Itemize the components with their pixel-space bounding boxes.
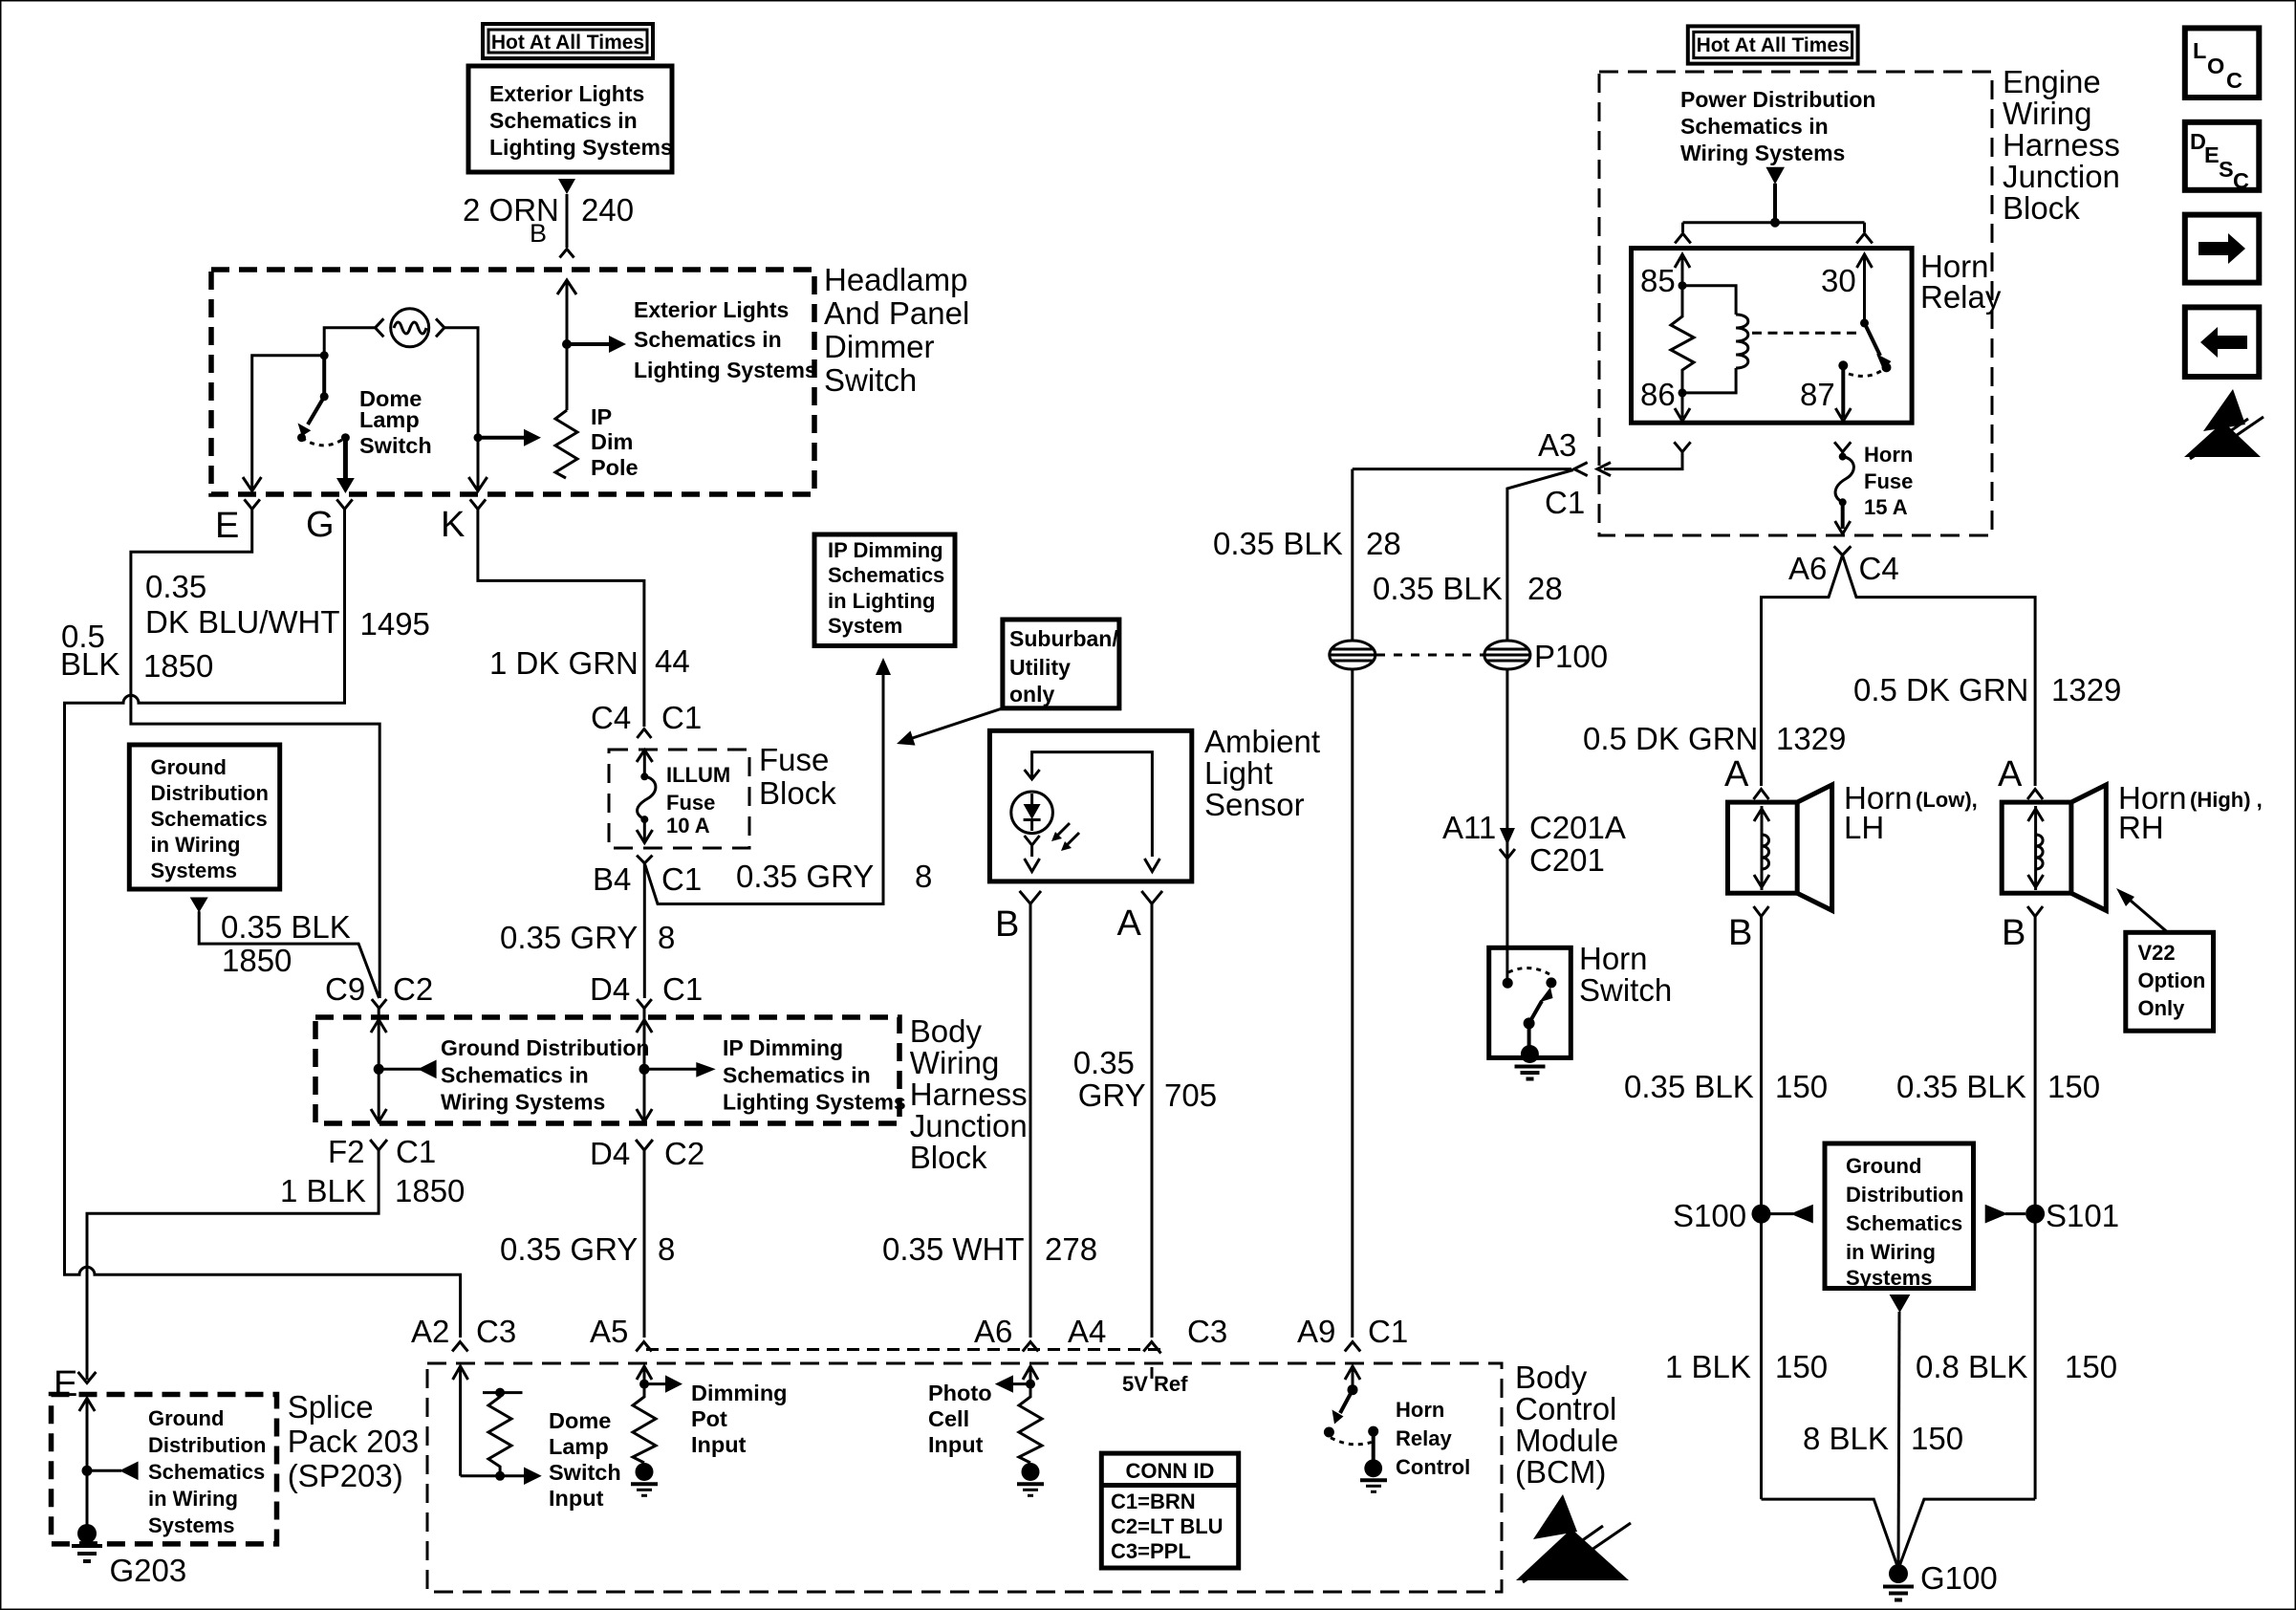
svg-text:(SP203): (SP203) — [288, 1458, 403, 1493]
arrow to ground distribution text — [379, 1060, 436, 1079]
svg-text:E: E — [215, 506, 239, 546]
svg-text:Block: Block — [2003, 190, 2080, 226]
svg-text:Block: Block — [910, 1140, 987, 1175]
svg-text:C2: C2 — [393, 971, 433, 1007]
connector box: Hot At All Times (right) — [1688, 26, 1858, 63]
svg-text:44: 44 — [655, 643, 690, 679]
annotation: IP Dimming Schematics in Lighting Systems — [723, 1035, 906, 1115]
svg-text:C3=PPL: C3=PPL — [1111, 1539, 1191, 1563]
BCM A4 entry wire — [1151, 1367, 1154, 1379]
horn RH internals — [2028, 806, 2044, 890]
connector chevron B4 — [637, 856, 652, 863]
annotation: Photo Cell Input — [928, 1381, 992, 1457]
label Horn Fuse 15 A — [1864, 443, 1913, 519]
svg-text:Junction: Junction — [910, 1108, 1028, 1143]
svg-text:Dimming: Dimming — [691, 1381, 788, 1405]
wire LH horn ground run — [1762, 1499, 1899, 1569]
horn RH coil box — [2002, 802, 2071, 893]
relay output contact 87 — [1838, 360, 1881, 376]
arrow to photo cell text — [995, 1375, 1030, 1392]
svg-text:Light: Light — [1204, 755, 1273, 791]
svg-text:LH: LH — [1844, 810, 1884, 845]
pin 30 entry arrow and switch pivot — [1857, 254, 1873, 327]
svg-text:240: 240 — [581, 192, 634, 228]
svg-text:Splice: Splice — [288, 1389, 374, 1425]
svg-text:Fuse: Fuse — [1864, 469, 1913, 493]
svg-text:0.35: 0.35 — [145, 569, 206, 604]
svg-text:Suburban/: Suburban/ — [1009, 626, 1118, 651]
svg-text:0.35 BLK: 0.35 BLK — [1213, 526, 1343, 561]
sensor internal wiring — [1032, 752, 1160, 872]
svg-text:Block: Block — [759, 775, 836, 811]
horn fuse element — [1835, 452, 1853, 507]
svg-text:C201A: C201A — [1529, 810, 1626, 845]
arrow to IP dim pole resistor — [478, 429, 541, 446]
connector chevron F2/C1 — [370, 1140, 387, 1150]
svg-text:(Low),: (Low), — [1916, 788, 1978, 812]
connector A6/C4 chevron — [1834, 546, 1852, 555]
connector A11 arrow and chevron — [1500, 828, 1515, 859]
annotation: Exterior Lights Schematics in Lighting Systems — [634, 297, 817, 382]
svg-text:150: 150 — [2047, 1069, 2100, 1104]
annotation: Dome Lamp Switch — [359, 386, 432, 458]
svg-text:B: B — [2002, 913, 2025, 953]
svg-text:0.35 GRY: 0.35 GRY — [500, 1231, 638, 1267]
svg-text:0.35: 0.35 — [1073, 1045, 1135, 1080]
svg-text:C: C — [2233, 168, 2249, 193]
svg-text:C1: C1 — [1368, 1314, 1408, 1349]
ambient light sensor box — [989, 730, 1191, 881]
svg-text:GRY: GRY — [1078, 1077, 1146, 1113]
node: S101 — [2025, 1205, 2045, 1224]
svg-text:DK BLU/WHT: DK BLU/WHT — [145, 604, 340, 640]
svg-text:A11: A11 — [1442, 810, 1496, 845]
svg-text:A3: A3 — [1538, 427, 1576, 463]
svg-text:0.35 BLK: 0.35 BLK — [221, 909, 351, 945]
svg-text:Sensor: Sensor — [1204, 787, 1305, 822]
svg-text:in Wiring: in Wiring — [148, 1487, 238, 1511]
svg-text:Fuse: Fuse — [666, 791, 715, 815]
arrow from power distribution — [1765, 167, 1785, 185]
resistor: dimming pot input — [633, 1384, 656, 1463]
svg-text:8 BLK: 8 BLK — [1803, 1421, 1889, 1456]
svg-text:Horn: Horn — [1396, 1398, 1444, 1422]
svg-text:in Wiring: in Wiring — [1846, 1240, 1936, 1264]
svg-text:0.5 DK GRN: 0.5 DK GRN — [1853, 672, 2028, 707]
wire lamp left to junction — [324, 328, 375, 356]
arrow from reference box — [558, 179, 575, 194]
svg-text:28: 28 — [1527, 571, 1563, 606]
svg-text:Pot: Pot — [691, 1406, 727, 1431]
svg-text:Systems: Systems — [148, 1513, 235, 1537]
wire pin K with down arrow — [468, 438, 487, 491]
svg-text:G203: G203 — [110, 1553, 187, 1588]
relay switch arm — [1865, 323, 1892, 373]
connector chevron A (horn LH) — [1754, 790, 1769, 800]
svg-text:Schematics in: Schematics in — [441, 1062, 589, 1087]
ground (photo cell) — [1017, 1463, 1044, 1495]
wire BCM drop upper — [1351, 469, 1354, 642]
svg-text:E: E — [54, 1364, 77, 1404]
node: dimming pot top — [639, 1380, 649, 1389]
node: splice junction — [82, 1466, 93, 1476]
arrow from ground distribution box — [190, 898, 208, 913]
svg-text:Cell: Cell — [928, 1406, 969, 1431]
horn LH internals — [1754, 806, 1769, 890]
pin 87 chevron below relay — [1834, 442, 1851, 451]
svg-text:Schematics in: Schematics in — [1680, 114, 1829, 139]
svg-text:1850: 1850 — [143, 648, 213, 684]
arrowhead at A3 — [1597, 463, 1611, 476]
BCM A2 entry arrow — [453, 1366, 468, 1476]
svg-text:C1: C1 — [661, 700, 702, 735]
svg-text:Junction: Junction — [2003, 159, 2120, 194]
svg-text:B: B — [1728, 913, 1752, 953]
component name: Engine Wiring Harness Junction Block — [2003, 64, 2120, 226]
arrow from Suburban box to fuse block — [897, 708, 1003, 746]
incident light arrows — [1051, 823, 1079, 851]
node: photo cell top — [1026, 1380, 1035, 1389]
reference box: V22 Option Only — [2126, 932, 2214, 1031]
svg-text:C1: C1 — [396, 1134, 436, 1169]
annotation: Dimming Pot Input — [691, 1381, 788, 1457]
svg-text:Ambient: Ambient — [1204, 724, 1320, 759]
ground G203 — [72, 1524, 102, 1561]
wire F2 to splice pack pin E — [87, 1150, 379, 1380]
wire 8 BLK 150 to G100 — [1898, 1312, 1899, 1569]
connector chevron A2 — [452, 1342, 467, 1352]
node: coil top — [1679, 281, 1687, 290]
svg-text:Schematics in: Schematics in — [723, 1062, 871, 1087]
svg-text:B: B — [530, 219, 547, 248]
BCM A6 entry arrow — [1023, 1366, 1038, 1384]
connector chevron D4/C1 — [637, 999, 652, 1009]
svg-text:in Lighting: in Lighting — [828, 589, 935, 613]
svg-text:B4: B4 — [593, 861, 631, 897]
component name: Body Control Module (BCM) — [1515, 1360, 1618, 1490]
svg-text:Dome: Dome — [549, 1408, 611, 1433]
svg-text:Hot At All Times: Hot At All Times — [491, 32, 644, 54]
svg-text:(High) ,: (High) , — [2190, 788, 2263, 812]
connector chevron E (splice) — [78, 1372, 97, 1383]
svg-text:RH: RH — [2118, 810, 2164, 845]
svg-text:Lamp: Lamp — [359, 407, 420, 432]
connector chevron D4/C2 — [636, 1140, 653, 1150]
svg-text:1495: 1495 — [360, 606, 430, 642]
svg-text:1 DK GRN: 1 DK GRN — [489, 645, 639, 681]
wire fuse B4 down to D4 — [643, 863, 646, 998]
svg-text:C1: C1 — [662, 971, 703, 1007]
arrow to exterior lights schematics — [567, 336, 626, 353]
svg-text:Wiring: Wiring — [910, 1045, 1000, 1080]
node: bus junction — [1770, 218, 1780, 228]
wire pin G with down arrow — [336, 438, 355, 493]
svg-text:10 A: 10 A — [666, 814, 710, 838]
BCM connector strip dotted line — [646, 1348, 1162, 1351]
svg-text:8: 8 — [658, 1231, 675, 1267]
reference box: Suburban/Utility only — [1003, 620, 1119, 708]
svg-text:86: 86 — [1640, 377, 1676, 412]
coil bottom connection — [1682, 368, 1736, 393]
svg-text:A4: A4 — [1068, 1314, 1106, 1349]
connector chevron C9/C2 — [372, 999, 387, 1009]
switch arm with arrowhead — [298, 397, 325, 437]
connector chevron A3 — [1574, 463, 1588, 476]
svg-text:Schematics: Schematics — [1846, 1211, 1962, 1235]
svg-text:5V Ref: 5V Ref — [1122, 1372, 1188, 1396]
wire branch 0.35 GRY 8 to IP dimming reference — [644, 658, 891, 904]
relay coil resistor — [1671, 286, 1694, 393]
svg-text:C1=BRN: C1=BRN — [1111, 1490, 1196, 1513]
svg-text:E: E — [2204, 142, 2220, 167]
horn RH bell — [2071, 785, 2106, 910]
svg-text:Only: Only — [2138, 996, 2186, 1020]
svg-text:150: 150 — [1911, 1421, 1963, 1456]
svg-text:Fuse: Fuse — [759, 742, 829, 777]
svg-text:S: S — [2219, 157, 2234, 182]
horn LH bell — [1797, 785, 1831, 910]
svg-text:V22: V22 — [2138, 941, 2176, 965]
sidebar LOC box — [2185, 28, 2260, 98]
svg-text:Horn: Horn — [1864, 443, 1913, 467]
svg-text:Lighting Systems: Lighting Systems — [489, 135, 673, 160]
svg-text:Schematics: Schematics — [151, 807, 268, 831]
relay coil — [1736, 315, 1748, 368]
svg-text:Lighting Systems: Lighting Systems — [723, 1090, 906, 1115]
svg-text:A: A — [1117, 903, 1142, 944]
svg-text:IP Dimming: IP Dimming — [723, 1035, 843, 1060]
svg-text:0.35 GRY: 0.35 GRY — [736, 859, 874, 894]
svg-text:IP Dimming: IP Dimming — [828, 538, 943, 562]
horn switch box — [1489, 947, 1571, 1057]
svg-text:L: L — [2193, 38, 2206, 63]
LED photo sensor — [1011, 770, 1053, 872]
horn relay control switch — [1324, 1384, 1378, 1460]
connector chevron B (horn LH) — [1754, 906, 1769, 917]
svg-text:Schematics in: Schematics in — [634, 327, 782, 352]
svg-text:30: 30 — [1821, 263, 1856, 298]
horn switch arm — [1524, 988, 1553, 1030]
svg-text:D4: D4 — [590, 971, 630, 1007]
arrow box to S101 — [1985, 1205, 2025, 1224]
node: junction to exterior lights output — [562, 339, 572, 349]
BCM A5 entry arrow — [637, 1366, 652, 1384]
pin 87 exit arrow — [1835, 365, 1851, 421]
node: coil bottom — [1679, 388, 1687, 397]
svg-text:0.35 BLK: 0.35 BLK — [1624, 1069, 1754, 1104]
label 0.35 GRY (sensor A) — [1073, 1045, 1146, 1113]
wire horn switch drop lower — [1505, 669, 1508, 947]
P100 grommet right — [1484, 641, 1530, 669]
fuse block dashed box — [609, 750, 749, 848]
connector chevron B (sensor) — [1020, 891, 1041, 903]
svg-text:1850: 1850 — [222, 943, 292, 978]
svg-text:Switch: Switch — [359, 433, 432, 458]
svg-text:Wiring Systems: Wiring Systems — [1680, 141, 1845, 165]
label IP Dim Pole — [591, 404, 639, 480]
node: S100 — [1752, 1205, 1771, 1224]
resistor: dome lamp switch input — [483, 1388, 523, 1476]
svg-text:278: 278 — [1045, 1231, 1097, 1267]
svg-text:Systems: Systems — [151, 859, 238, 882]
svg-text:Option: Option — [2138, 968, 2206, 992]
connector chevron C4/C1 — [637, 729, 651, 739]
svg-text:Hot At All Times: Hot At All Times — [1697, 34, 1850, 56]
annotation: Ground Distribution Schematics in Wiring Systems — [441, 1035, 649, 1115]
wire K: 1 DK GRN 44 to fuse block C4 — [478, 510, 644, 728]
svg-text:Ground: Ground — [1846, 1154, 1921, 1178]
svg-text:0.35 BLK: 0.35 BLK — [1373, 571, 1503, 606]
node: K junction — [474, 433, 483, 442]
wire through junction box (IP dim path) — [637, 1009, 652, 1122]
pin 86 exit arrow — [1675, 393, 1690, 422]
engine wiring harness junction block dashed box — [1599, 72, 1992, 535]
svg-text:Exterior Lights: Exterior Lights — [489, 81, 644, 106]
connector chevron B — [560, 250, 574, 258]
sidebar DESC box — [2185, 122, 2260, 193]
svg-text:Distribution: Distribution — [148, 1433, 266, 1457]
connector chevron B (horn RH) — [2027, 906, 2043, 917]
component name: Horn Relay — [1920, 249, 2002, 315]
wire G: DK BLU/WHT 1495 to BCM A2 (with hops) — [65, 510, 461, 1338]
connector chevron E — [245, 499, 260, 509]
ground G100 — [1883, 1564, 1914, 1600]
connector box: Hot At All Times (left) — [483, 24, 653, 58]
svg-text:(BCM): (BCM) — [1515, 1454, 1606, 1490]
svg-text:Relay: Relay — [1396, 1426, 1452, 1450]
svg-text:CONN ID: CONN ID — [1126, 1459, 1215, 1483]
svg-text:A9: A9 — [1297, 1314, 1335, 1349]
wire sensor B to BCM A6: 0.35 WHT 278 — [1029, 903, 1032, 1338]
svg-text:only: only — [1009, 682, 1054, 707]
component name: Fuse Block — [759, 742, 836, 811]
fuse ILLUM element — [638, 772, 656, 823]
connector D4 / C1 labels — [590, 971, 703, 1007]
wire C1 slant to horn switch drop — [1507, 470, 1573, 642]
feed wire to relay bus — [1773, 184, 1777, 223]
relay actuation dashed link — [1752, 332, 1858, 335]
connector chevron A (sensor) — [1141, 891, 1162, 903]
svg-text:Ground: Ground — [148, 1406, 224, 1430]
svg-text:1329: 1329 — [2051, 672, 2121, 707]
svg-text:G100: G100 — [1920, 1560, 1998, 1596]
svg-text:C201: C201 — [1529, 842, 1605, 878]
svg-text:0.5 DK GRN: 0.5 DK GRN — [1583, 721, 1758, 756]
svg-text:C2=LT BLU: C2=LT BLU — [1111, 1514, 1224, 1538]
resistor: IP Dim Pole — [555, 410, 577, 478]
svg-text:0.35 GRY: 0.35 GRY — [500, 920, 638, 955]
svg-text:Control: Control — [1515, 1391, 1616, 1426]
sidebar back arrow box — [2185, 307, 2260, 377]
svg-text:A6: A6 — [974, 1314, 1012, 1349]
sidebar ESD symbol — [2184, 389, 2264, 459]
svg-text:Headlamp: Headlamp — [824, 262, 967, 297]
horn switch ground — [1515, 1023, 1546, 1078]
relay feed bus — [1683, 221, 1865, 224]
svg-text:705: 705 — [1164, 1077, 1217, 1113]
svg-text:1 BLK: 1 BLK — [1665, 1349, 1751, 1384]
svg-text:Lamp: Lamp — [549, 1434, 609, 1459]
svg-text:System: System — [828, 614, 902, 638]
ground (horn relay control) — [1360, 1459, 1387, 1491]
wire junction to pin E with down arrow — [243, 356, 324, 491]
svg-text:S100: S100 — [1673, 1198, 1746, 1233]
svg-text:in Wiring: in Wiring — [151, 833, 241, 857]
connector chevron A4 — [1143, 1342, 1160, 1354]
connector chevron A6 — [1023, 1342, 1038, 1352]
svg-text:Pole: Pole — [591, 455, 639, 480]
connector chevron A (horn RH) — [2027, 790, 2043, 800]
relay coil branch wire — [1682, 286, 1736, 315]
svg-text:C9: C9 — [325, 971, 365, 1007]
svg-text:Module: Module — [1515, 1423, 1618, 1458]
splice pack dashed box — [52, 1395, 277, 1544]
arrow from ground distribution box down — [1890, 1295, 1911, 1313]
svg-text:Relay: Relay — [1920, 279, 2002, 315]
horn LH coil box — [1728, 802, 1798, 893]
component name: Splice Pack 203 (SP203) — [288, 1389, 420, 1493]
svg-text:150: 150 — [1775, 1069, 1828, 1104]
dome lamp switch pivot — [320, 356, 329, 402]
svg-text:Photo: Photo — [928, 1381, 992, 1405]
wire A3 horizontal to BCM drop — [1353, 468, 1571, 470]
svg-text:Distribution: Distribution — [1846, 1183, 1963, 1207]
svg-text:And Panel: And Panel — [824, 295, 969, 331]
component name: Horn Switch — [1579, 941, 1672, 1008]
svg-text:Control: Control — [1396, 1455, 1470, 1479]
svg-text:150: 150 — [1775, 1349, 1828, 1384]
reference box: IP Dimming Schematics in Lighting System — [814, 534, 955, 646]
svg-text:A6: A6 — [1788, 551, 1827, 586]
horn fuse output arrow — [1835, 502, 1851, 533]
svg-text:Switch: Switch — [824, 362, 917, 398]
node: dome lamp switch common — [320, 351, 329, 359]
svg-text:Schematics: Schematics — [828, 563, 944, 587]
svg-text:Horn: Horn — [1579, 941, 1648, 976]
svg-text:150: 150 — [2065, 1349, 2117, 1384]
svg-text:Systems: Systems — [1846, 1266, 1933, 1290]
wire 2 ORN 240 — [566, 194, 569, 248]
reference box: Exterior Lights Schematics in Lighting Systems (top) — [468, 66, 673, 172]
wire stub 0.35 BLK 1850 to C9 — [199, 911, 379, 998]
svg-text:Dimmer: Dimmer — [824, 329, 934, 364]
svg-text:C2: C2 — [664, 1136, 704, 1171]
arrow to dimming pot text — [644, 1375, 682, 1392]
svg-text:BLK: BLK — [60, 646, 119, 682]
connector F2 / C1 labels — [328, 1134, 436, 1169]
pin 85 entry arrow — [1675, 254, 1690, 286]
svg-text:Body: Body — [1515, 1360, 1588, 1395]
wire BCM drop lower (to A9) — [1351, 669, 1354, 1338]
svg-text:1 BLK: 1 BLK — [280, 1173, 366, 1208]
svg-text:87: 87 — [1800, 377, 1835, 412]
svg-text:A5: A5 — [590, 1314, 628, 1349]
svg-text:F2: F2 — [328, 1134, 365, 1169]
wire into splice with up arrow — [79, 1398, 95, 1534]
horn switch contacts — [1503, 968, 1557, 988]
svg-text:A2: A2 — [411, 1314, 449, 1349]
svg-text:Exterior Lights: Exterior Lights — [634, 297, 789, 322]
connector B4 / C1 labels — [593, 861, 702, 897]
node: junction (IP dim row) — [639, 1064, 650, 1075]
horn relay box — [1632, 249, 1913, 424]
resistor: photo cell input — [1019, 1384, 1042, 1463]
svg-text:8: 8 — [658, 920, 675, 955]
svg-text:85: 85 — [1640, 263, 1676, 298]
svg-text:IP: IP — [591, 404, 612, 429]
svg-text:G: G — [306, 505, 335, 545]
wire B into dimmer switch with up arrow — [557, 280, 576, 410]
